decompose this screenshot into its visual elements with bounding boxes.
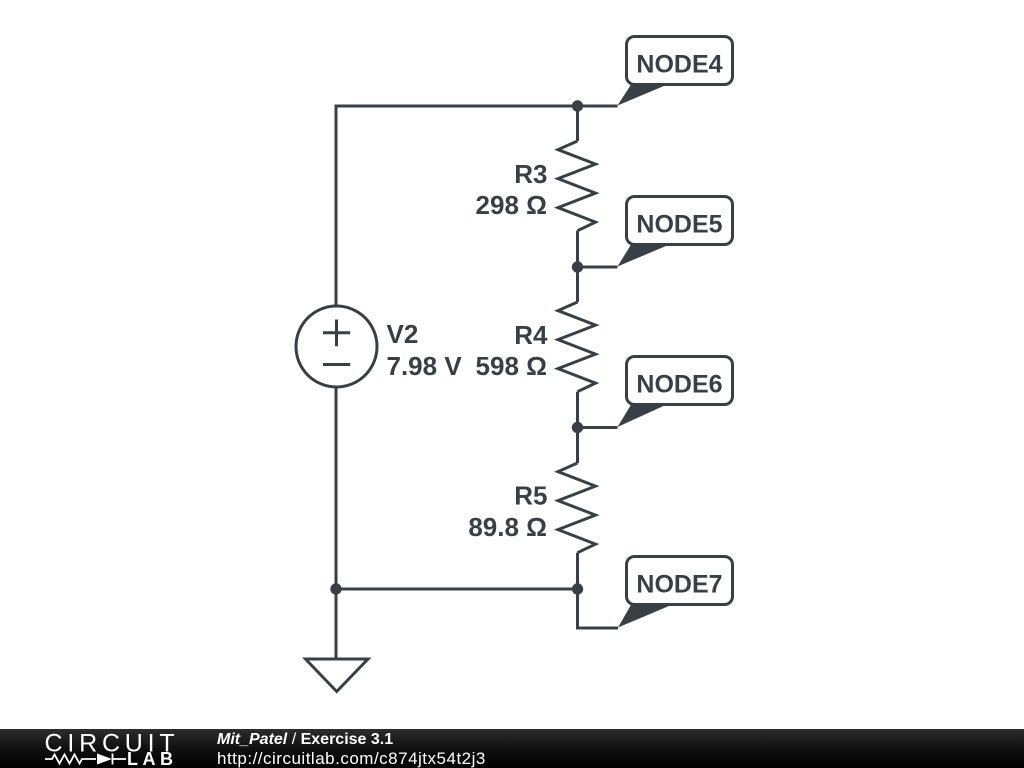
node NODE5 [618,197,733,267]
svg-text:R4: R4 [514,320,548,350]
svg-text:V2: V2 [387,319,419,349]
node NODE7 [618,557,733,628]
voltage source V2 [296,306,377,387]
node NODE6 [618,357,733,428]
ground [306,659,369,692]
resistor R5 [558,463,596,553]
svg-text:R3: R3 [514,159,547,189]
wire left vertical upper [335,105,338,308]
CircuitLab logo resistor-diode symbol [45,754,126,765]
junction node E [330,583,341,594]
svg-text:89.8 Ω: 89.8 Ω [468,512,547,542]
svg-text:R5: R5 [514,481,547,511]
wire ground stem [335,589,338,659]
resistor R3 [558,141,596,231]
node NODE4 [618,37,733,106]
junction node D [572,583,583,594]
wire left vertical lower [335,387,338,591]
footer breadcrumb text [217,732,393,748]
wire stub node7 [578,589,619,628]
footer url text [217,750,486,767]
wire stub node5 [578,266,618,269]
junction node C [572,422,583,433]
svg-text:7.98 V: 7.98 V [387,351,463,381]
svg-text:LAB: LAB [127,749,178,768]
wire top horizontal [336,105,618,108]
junction node A [572,100,583,111]
svg-text:298 Ω: 298 Ω [476,190,547,220]
wire chain mid1 [576,231,579,302]
resistor R4 [558,302,596,392]
footer bar [0,729,1024,768]
svg-text:NODE4: NODE4 [636,51,722,79]
wire chain top [576,105,579,142]
svg-text:NODE5: NODE5 [636,211,722,239]
junction node B [572,261,583,272]
svg-text:NODE7: NODE7 [636,571,722,599]
svg-text:598 Ω: 598 Ω [476,351,547,381]
wire chain mid2 [576,392,579,463]
wire stub node6 [578,426,618,429]
wire chain bottom [576,553,579,589]
svg-text:NODE6: NODE6 [636,371,722,399]
wire bottom horizontal [335,588,580,591]
